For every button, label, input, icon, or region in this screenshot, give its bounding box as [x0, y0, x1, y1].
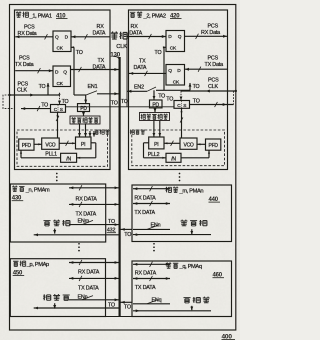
wire VCO to PI 420: [164, 141, 180, 146]
label PCS RX Data 420: [201, 24, 220, 36]
label TO 450: [108, 303, 115, 309]
svg-text:/N: /N: [66, 157, 71, 163]
reference numeral 432: [107, 228, 116, 234]
svg-text:EN1: EN1: [88, 84, 98, 90]
svg-text:TX DATA: TX DATA: [76, 211, 97, 217]
block 450 title 芯粒_p PMAp: [13, 261, 49, 269]
svg-text:TO: TO: [62, 99, 69, 105]
svg-text:VCO: VCO: [45, 142, 55, 148]
label RX DATA 460: [135, 271, 157, 277]
wire /N to PFD: [20, 150, 61, 157]
wire leader arrows into PI: [89, 131, 96, 137]
flip-flop U1 RX retimer: [53, 31, 71, 52]
wire TX DATA 430: [69, 202, 119, 207]
svg-text:PCS: PCS: [24, 25, 35, 31]
svg-text:RX: RX: [97, 24, 105, 30]
svg-text:TO: TO: [76, 50, 83, 56]
wire PCS CLK in 420: [181, 90, 237, 93]
svg-text:CLK: CLK: [116, 44, 127, 50]
reference numeral 450: [13, 270, 25, 276]
label TO at U4 clock: [193, 84, 200, 90]
switch EN1: [74, 91, 119, 96]
outer frame of figure 400: [10, 5, 236, 331]
svg-text:/N: /N: [171, 157, 176, 163]
block PI 410: [76, 137, 92, 149]
label PCS RX Data: [18, 25, 37, 37]
label ENm: [78, 218, 90, 224]
wire junction to CS box 420: [180, 91, 183, 100]
reference numeral 430: [12, 196, 24, 202]
flip-flop U4 TX retimer 420: [166, 65, 185, 86]
reference numeral 440: [209, 197, 221, 203]
block PD 420: [150, 100, 163, 109]
svg-text:TX DATA: TX DATA: [134, 210, 155, 216]
block PFD 410: [19, 139, 34, 150]
PLL1 dashed enclosure: [17, 130, 108, 166]
label RX DATA 420 left: [129, 24, 142, 36]
wire loop filter to PI arrows 420: [153, 121, 162, 137]
wire TX DATA 450: [69, 276, 119, 281]
label TX DATA 430: [76, 211, 97, 217]
svg-text:CK: CK: [57, 81, 64, 87]
ellipsis dots between 430 450: [78, 243, 80, 252]
svg-text:PLL1: PLL1: [45, 151, 57, 157]
svg-text:RX DATA: RX DATA: [135, 271, 157, 277]
label TX DATA 420 left: [134, 59, 147, 72]
label TO left of junction 420: [166, 97, 173, 103]
svg-text:PCS: PCS: [208, 56, 219, 62]
svg-text:PD: PD: [80, 106, 87, 112]
svg-text:PCS: PCS: [208, 77, 219, 83]
wire TO into 460: [120, 301, 132, 304]
svg-text:PFD: PFD: [209, 143, 219, 149]
svg-text:VCO: VCO: [184, 142, 194, 148]
reference numeral 130: [110, 51, 120, 58]
block 430 title 芯粒_n PMAm: [12, 186, 50, 194]
svg-text:RX DATA: RX DATA: [78, 270, 100, 276]
block 410 title 芯粒_1 PMA1 410: [16, 11, 68, 19]
wire dashed clock loopback left: [3, 95, 15, 109]
flip-flop U3 RX retimer 420: [166, 31, 185, 52]
label RX DATA 450: [78, 270, 100, 276]
wire PFD to VCO 420: [197, 143, 206, 145]
svg-text:EN2: EN2: [134, 85, 144, 91]
label TO left of bus: [111, 101, 118, 107]
block divider /N 420: [166, 153, 181, 162]
chiplet block PMAp 450 outline: [10, 259, 105, 317]
svg-text:PD: PD: [152, 103, 159, 109]
svg-text:_p, PMAp: _p, PMAp: [26, 262, 49, 268]
switch ENq: [133, 300, 170, 304]
svg-text:DATA: DATA: [93, 31, 106, 37]
wire TX DATA 460: [133, 276, 170, 281]
wire PCS CLK in: [8, 94, 59, 97]
svg-text:TX DATA: TX DATA: [78, 285, 99, 291]
flip-flop U3 pin Q: [178, 34, 182, 40]
flip-flop U3 pin CK: [163, 45, 177, 51]
label RX DATA 430: [76, 196, 98, 202]
label 首领者 leader 440: [181, 220, 207, 226]
svg-text:130: 130: [110, 51, 120, 58]
svg-text:Q: Q: [168, 68, 172, 74]
label PLL2: [148, 152, 160, 158]
block CS phase selector 410: [51, 105, 66, 113]
flip-flop U2 TX retimer: [53, 66, 71, 87]
flip-flop U3 pin D: [168, 34, 172, 40]
ellipsis dots below 410: [56, 173, 58, 182]
wire RX DATA 440: [133, 186, 170, 191]
label TO at PD 420: [158, 93, 165, 99]
block PI 420: [149, 137, 164, 149]
svg-text:DATA: DATA: [129, 31, 142, 37]
svg-text:CK: CK: [170, 45, 177, 51]
wire /N to PFD 420: [181, 150, 210, 157]
flip-flop U2 pin D: [55, 69, 59, 75]
svg-text:TO: TO: [193, 84, 200, 90]
wire PCS TX Data in: [15, 68, 53, 73]
svg-text:RX Data: RX Data: [18, 31, 37, 37]
chiplet block PMA1 410 outline: [15, 10, 111, 170]
block divider /N 410: [61, 153, 77, 162]
svg-text:PI: PI: [81, 142, 85, 148]
svg-text:TO: TO: [124, 305, 131, 311]
label TO at U3: [155, 50, 162, 56]
label PCS TX Data 420: [205, 56, 224, 69]
block loop filter 环形滤波器 410: [70, 116, 100, 124]
svg-text:PCS: PCS: [18, 81, 29, 87]
svg-text:DATA: DATA: [134, 65, 147, 71]
label TO right of bus: [121, 99, 128, 105]
svg-text:CLK: CLK: [17, 88, 27, 94]
switch EN2: [127, 87, 190, 93]
flip-flop U1 pin Q: [55, 35, 59, 41]
wire RX DATA into U3 D: [127, 34, 166, 39]
block 440 title 芯粒_m PMAn: [166, 187, 204, 195]
svg-text:PCS: PCS: [19, 55, 30, 61]
label CLK global clock: [116, 44, 127, 50]
wire junction to CS box: [58, 92, 61, 104]
label 全局 global: [111, 31, 127, 39]
label TO at U1: [76, 50, 83, 56]
svg-text:S: S: [60, 107, 63, 113]
wire TX DATA out of U2 Q: [71, 67, 119, 72]
chiplet block PMAn 440 outline: [132, 185, 232, 242]
svg-text:TO: TO: [155, 50, 162, 56]
svg-text:DATA: DATA: [93, 65, 106, 71]
label TX DATA 450: [78, 285, 99, 291]
flip-flop U1 pin D: [65, 35, 69, 41]
label TO 430: [108, 219, 115, 225]
wire bottom return 430: [34, 233, 119, 236]
ellipsis dots below 420: [179, 173, 181, 182]
flip-flop U1 pin CK: [57, 46, 75, 52]
chiplet block PMAm 430 outline: [10, 184, 105, 242]
wire bottom return 450: [34, 307, 120, 310]
wire EN1 to PD: [84, 95, 87, 103]
label TO at CS top: [62, 99, 69, 105]
svg-text:_1, PMA1: _1, PMA1: [29, 13, 52, 19]
block CS phase selector 420: [174, 101, 190, 109]
label 首领者 leader 410: [95, 129, 110, 134]
svg-text:TX: TX: [98, 58, 105, 64]
switch ENm and wire TO: [69, 220, 119, 226]
label TO at U2 clock: [39, 84, 46, 90]
svg-text:PI: PI: [154, 142, 158, 148]
svg-text:PFD: PFD: [22, 143, 32, 149]
svg-text:_q, PMAq: _q, PMAq: [179, 264, 202, 270]
wire TO into 440: [120, 228, 132, 231]
switch ENp and wire TO 450: [69, 296, 119, 302]
wire PI feedback to /N 420: [144, 143, 167, 159]
svg-text:CK: CK: [173, 79, 180, 85]
svg-text:TO: TO: [158, 93, 165, 99]
label TO 440: [124, 232, 131, 238]
label EN2: [134, 85, 144, 91]
label ENp: [78, 295, 88, 301]
label RX DATA 440: [134, 196, 156, 202]
wire EN2 to PD 420: [153, 90, 156, 100]
svg-text:CK: CK: [57, 46, 64, 52]
wire TO clock to U1 CK: [71, 47, 74, 95]
svg-text:TO: TO: [193, 98, 200, 104]
label PLL1: [45, 151, 57, 157]
wire bottom distribute 460: [133, 309, 211, 312]
wire TO interconnect crossing bus: [66, 106, 175, 108]
wire CS output TO left: [21, 106, 51, 111]
wire VCO to PI: [59, 141, 75, 146]
wire leader down arrow 430: [53, 229, 56, 234]
label PCS CLK: [17, 81, 29, 93]
label 首领者 leader 460: [183, 297, 209, 303]
wire PD to loop filter: [82, 112, 85, 116]
svg-text:TO: TO: [111, 101, 118, 107]
block VCO 420: [180, 138, 197, 149]
svg-text:Q: Q: [63, 69, 67, 75]
block 420 title 芯粒_2 PMA2 420: [130, 11, 182, 19]
svg-text:RX DATA: RX DATA: [76, 196, 98, 202]
svg-text:Q: Q: [55, 35, 59, 41]
chiplet block PMA2 420 outline: [129, 10, 228, 170]
flip-flop U4 pin Q: [168, 68, 172, 74]
wire clock branch to U2 CK: [47, 83, 50, 95]
label 首领者 leader 430: [43, 220, 69, 226]
block 460 title 芯粒_q PMAq: [166, 262, 202, 270]
label TO 460: [124, 305, 131, 311]
svg-text:TO: TO: [166, 97, 173, 103]
wire RX DATA into U1 D: [71, 34, 110, 39]
svg-text:Q: Q: [178, 34, 182, 40]
wire PFD to VCO: [34, 143, 42, 145]
svg-text:TX DATA: TX DATA: [135, 285, 156, 291]
wire loop filter to PI arrows: [78, 124, 87, 137]
label 首领者 leader 420: [130, 129, 145, 134]
svg-text:_m, PMAn: _m, PMAn: [179, 188, 204, 194]
wire PD to loop filter 420: [154, 108, 157, 112]
svg-text:TO: TO: [124, 232, 131, 238]
wire leader down arrow 460: [190, 306, 193, 311]
PLL2 dashed enclosure: [132, 130, 225, 166]
svg-text:TX Data: TX Data: [15, 62, 34, 68]
label PCS TX Data: [15, 55, 34, 67]
svg-text:TO: TO: [39, 84, 46, 90]
flip-flop U4 pin CK: [173, 79, 180, 85]
flip-flop U2 pin Q: [63, 69, 67, 75]
wire FF clock branch 420: [189, 83, 192, 91]
svg-text:_2, PMA2: _2, PMA2: [143, 13, 166, 19]
wire RX DATA 450: [69, 260, 119, 265]
wire CS down to VCO 420: [180, 108, 183, 138]
svg-text:ENm: ENm: [78, 218, 90, 224]
wire RX DATA 430: [69, 185, 119, 190]
label PCS CLK 420: [208, 77, 219, 89]
wire PCS TX Data into U4 D: [185, 67, 228, 72]
wire PCS RX Data out 420: [185, 34, 228, 39]
block VCO 410: [42, 138, 60, 149]
figure number 400 label: [222, 334, 236, 340]
svg-text:400: 400: [222, 334, 233, 340]
reference numeral 460: [213, 273, 225, 279]
label TO left of CS: [41, 103, 48, 109]
flip-flop U4 pin D: [177, 68, 181, 74]
svg-text:RX: RX: [131, 24, 139, 30]
label TX DATA 440: [134, 210, 155, 216]
wire vertical channel right of bus: [126, 33, 128, 107]
chiplet block PMAq 460 outline: [132, 261, 232, 317]
svg-text:TX: TX: [139, 59, 146, 65]
label TX DATA 460: [135, 285, 156, 291]
wire PI feedback to /N: [77, 143, 96, 159]
svg-text:CLK: CLK: [208, 84, 218, 90]
svg-text:_n, PMAm: _n, PMAm: [25, 187, 50, 193]
block PD 410: [78, 104, 90, 113]
svg-text:TX Data: TX Data: [205, 62, 224, 68]
svg-text:PLL2: PLL2: [148, 152, 160, 158]
svg-text:TO: TO: [41, 103, 48, 109]
label TO right of junction 420: [193, 98, 200, 104]
svg-text:TO: TO: [121, 99, 128, 105]
wire TX DATA out of U4: [129, 71, 166, 76]
block loop filter 环形滤波器 420: [140, 113, 170, 121]
label EN1: [88, 84, 98, 90]
wire CS down to VCO: [56, 112, 59, 138]
wire dashed clock loopback right: [233, 91, 235, 105]
svg-text:S: S: [183, 103, 186, 109]
wire PCS RX Data out: [15, 34, 53, 39]
wire RX DATA 460: [133, 262, 170, 267]
wire TO clock to U3 CK: [164, 47, 166, 90]
svg-text:TO: TO: [108, 219, 115, 225]
wire global clock bus vertical: [118, 57, 120, 317]
label ENq: [152, 297, 162, 303]
block PFD 420: [206, 139, 221, 150]
label ENn: [151, 223, 161, 229]
wire CS output TO right 420: [190, 102, 234, 107]
label RX DATA center: [93, 24, 106, 36]
wire leader down arrow 450: [53, 303, 56, 309]
svg-text:PCS: PCS: [208, 24, 219, 30]
svg-text:RX Data: RX Data: [201, 30, 220, 36]
wire leader down arrow 440: [190, 229, 193, 235]
label 首领者 leader 450: [43, 294, 70, 300]
wire TX DATA 440: [133, 201, 170, 206]
wire bottom distribute 440: [133, 233, 211, 236]
svg-text:RX DATA: RX DATA: [134, 196, 156, 202]
flip-flop U2 pin CK: [57, 81, 64, 87]
ellipsis dots between 440 460: [153, 243, 155, 252]
wire bus junction segment bottom: [106, 316, 133, 318]
switch ENn: [133, 225, 170, 229]
label TX DATA center: [93, 58, 106, 70]
node 130 leader curve: [114, 56, 120, 60]
